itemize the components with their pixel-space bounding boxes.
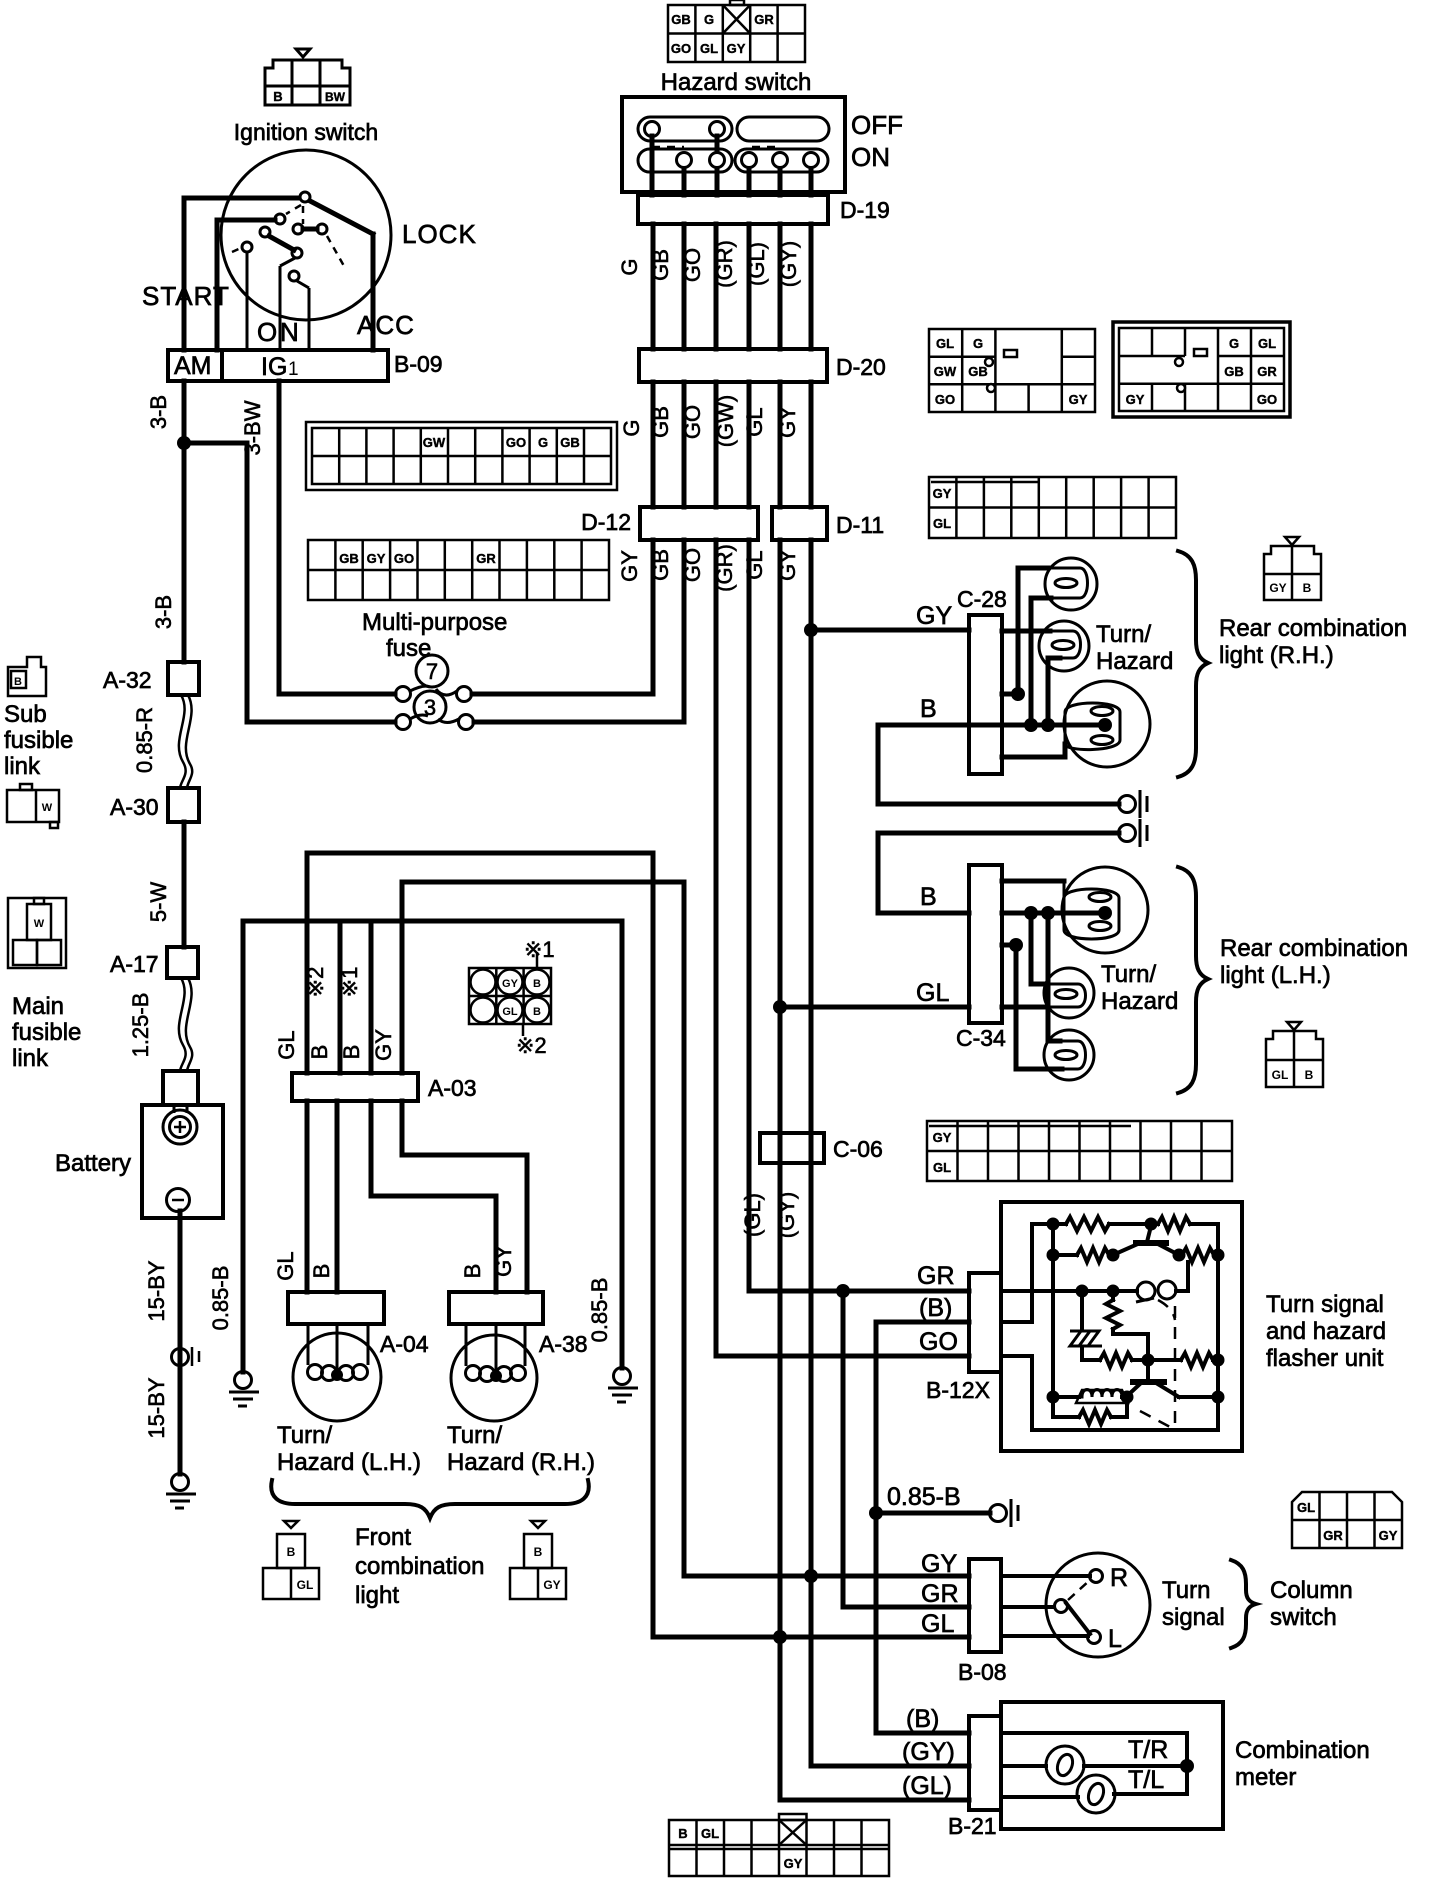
svg-text:GO: GO [506,435,526,450]
svg-text:Multi-purpose: Multi-purpose [362,609,507,636]
wire B front ground bus [243,919,622,924]
wire GY to C-28 [811,628,969,633]
front LH light connector icon [263,1521,319,1599]
battery terminal connector [163,1071,198,1105]
main fusible link icon [8,898,66,968]
wire 0.85-B to body ground [876,1511,990,1516]
svg-text:B: B [307,1045,332,1060]
wire B rear RH (ground to C-28) [878,725,1119,804]
flasher internal circuit [1001,1217,1218,1430]
resistor R6 vertical [1111,1291,1115,1300]
resistor R8 bottom [1053,1415,1079,1419]
svg-text:IG: IG [261,353,287,381]
svg-text:light (R.H.): light (R.H.) [1219,642,1334,669]
svg-text:switch: switch [1270,1604,1337,1631]
svg-text:GY: GY [775,406,800,438]
svg-text:A-32: A-32 [103,667,152,693]
svg-text:G: G [704,12,714,27]
svg-text:D-20: D-20 [836,354,886,380]
svg-text:(GL): (GL) [744,242,769,286]
svg-text:B-12X: B-12X [926,1377,990,1403]
svg-text:W: W [42,802,53,814]
svg-text:G: G [1229,336,1239,351]
svg-text:1: 1 [288,359,299,380]
svg-text:fusible: fusible [4,727,73,754]
svg-text:A-30: A-30 [110,794,159,820]
node: 3-B junction [177,436,191,450]
svg-text:※2: ※2 [303,967,328,998]
indicator bulb T/L [1077,1775,1115,1813]
svg-text:A-03: A-03 [428,1075,477,1101]
rear LH brace [1178,867,1208,1093]
wire 15-BY from battery negative [178,1211,183,1474]
svg-text:Rear combination: Rear combination [1220,935,1408,962]
wire GL (D-11 down to combination meter, through C-06) [780,540,969,1800]
svg-text:Main: Main [12,993,64,1020]
connector A-17 [167,947,198,978]
rear RH connector icon GY B [1264,537,1321,600]
svg-text:GL: GL [921,1610,954,1638]
relay contacts [1137,1282,1155,1300]
svg-text:GY: GY [1126,392,1145,407]
svg-text:T/R: T/R [1128,1736,1168,1764]
svg-text:B: B [920,695,937,723]
svg-text:D-12: D-12 [581,509,631,535]
svg-text:flasher unit: flasher unit [1266,1345,1384,1372]
flasher junction dots [1047,1218,1060,1231]
right connector face A (D-20 mate) [929,329,1095,412]
wire GO internal to bottom rail [1001,1356,1218,1430]
svg-text:A-04: A-04 [380,1331,429,1357]
svg-text:GB: GB [560,435,580,450]
connector C-28 [969,615,1002,774]
svg-text:B: B [273,89,282,104]
svg-text:GY: GY [933,1130,952,1145]
svg-text:ACC: ACC [357,310,415,340]
svg-text:(B): (B) [906,1705,939,1733]
ground (rear RH body ground) [1119,796,1136,813]
multi-purpose fuse box lower [308,540,609,600]
svg-text:GR: GR [476,551,496,566]
svg-text:※1: ※1 [337,967,362,998]
fusible link icon W [7,784,59,828]
right rail [1216,1224,1220,1430]
svg-text:15-BY: 15-BY [144,1377,169,1438]
connector face E (B-08 mate, corner-cut) [1292,1492,1402,1548]
svg-text:GL: GL [274,1030,299,1059]
svg-text:signal: signal [1162,1604,1225,1631]
svg-text:C-34: C-34 [956,1025,1006,1051]
svg-text:0.85-B: 0.85-B [208,1266,233,1331]
svg-text:GO: GO [680,248,705,282]
svg-text:Turn/: Turn/ [1096,621,1151,648]
svg-text:C-28: C-28 [957,586,1007,612]
svg-text:light: light [355,1582,399,1609]
bulb turn/hazard RH rear top [1045,558,1097,610]
node 0.85-B ground branch [869,1506,883,1520]
svg-text:B: B [460,1264,485,1279]
svg-text:LOCK: LOCK [402,219,477,249]
resistor R5 low rail [1100,1353,1132,1367]
relay contact feed GR [1001,1289,1137,1293]
svg-text:B: B [920,883,937,911]
svg-text:GL: GL [933,1160,951,1175]
svg-text:N: N [280,317,299,347]
C-34 lamp wiring [1002,881,1105,1069]
svg-text:GO: GO [680,405,705,439]
svg-text:GL: GL [936,336,954,351]
node GL column [773,1630,787,1644]
svg-text:(GL): (GL) [902,1772,952,1800]
svg-text:0.85-B: 0.85-B [587,1278,612,1343]
svg-text:link: link [12,1045,49,1072]
wire 5-W [182,822,187,947]
svg-text:(GY): (GY) [774,1192,799,1238]
rear LH connector icon GL B [1266,1022,1323,1087]
svg-text:GB: GB [339,551,359,566]
svg-text:GY: GY [933,486,952,501]
svg-text:Turn signal: Turn signal [1266,1291,1384,1318]
hazard switch connector face grid [668,0,805,62]
svg-text:7: 7 [426,659,438,684]
inline body ground connector on 15-BY [172,1349,189,1366]
svg-text:GL: GL [1297,1500,1315,1515]
connector B-21 [969,1716,1001,1810]
svg-text:B: B [309,1264,334,1279]
svg-text:※1: ※1 [524,937,555,962]
svg-text:G: G [619,419,644,436]
wire GY (D-12 to fuse 7) [472,540,653,694]
svg-text:GY: GY [371,1029,396,1061]
svg-text:1.25-B: 1.25-B [128,993,153,1058]
bulb stop/turn LH rear big [1062,867,1148,953]
svg-text:GR: GR [1257,364,1277,379]
svg-text:B: B [678,1826,687,1841]
wire B internal riser [1001,1224,1066,1322]
connector A-04 [288,1292,384,1324]
svg-text:GL: GL [742,407,767,436]
connector B-09 face (ignition switch connector) [265,49,350,105]
connector C-34 [969,865,1002,1023]
svg-text:GR: GR [921,1580,959,1608]
svg-text:GR: GR [754,12,774,27]
right connector face D (C-06 mate) [927,1121,1232,1181]
svg-text:※2: ※2 [516,1033,547,1058]
C-28 lamp wiring [1002,568,1105,757]
resistor R1 top rail [1066,1217,1109,1231]
connector B-09 [168,350,388,381]
svg-text:(GW): (GW) [713,395,738,448]
svg-text:GW: GW [934,364,957,379]
svg-text:Turn/: Turn/ [1101,961,1156,988]
bulb turn/hazard LH rear bottom [1044,1030,1094,1080]
turn signal and hazard flasher unit box [1001,1202,1242,1451]
svg-text:Rear combination: Rear combination [1219,615,1407,642]
svg-text:G: G [617,258,642,275]
transistor Q1 [1136,1240,1166,1246]
wire 0.85-B right ground drop [620,921,625,1368]
svg-text:Ignition switch: Ignition switch [234,119,378,145]
meter internal wiring [1001,1733,1187,1797]
wire GO (D-12 to flasher B-12X) [716,540,969,1356]
connector A-32 [168,662,199,695]
svg-text:15-BY: 15-BY [144,1260,169,1321]
svg-text:GB: GB [671,12,691,27]
svg-text:GL: GL [742,550,767,579]
svg-text:GY: GY [367,551,386,566]
svg-text:GY: GY [502,978,519,990]
ignition switch contacts and arms [184,198,373,350]
wire B (A-03 to A-04) [335,1101,340,1292]
svg-text:B: B [287,1545,296,1559]
svg-text:Hazard (R.H.): Hazard (R.H.) [447,1449,595,1476]
wire B no.1 [369,921,374,1073]
svg-text:GB: GB [968,364,988,379]
svg-text:GO: GO [1257,392,1277,407]
svg-text:B: B [534,1545,543,1559]
wire B (A-03 to A-38) [371,1101,496,1292]
svg-text:GY: GY [784,1856,803,1871]
ground (battery 15-BY) [172,1474,189,1491]
svg-text:GL: GL [916,979,949,1007]
resistor R2 top rail [1158,1217,1190,1231]
svg-text:A-17: A-17 [110,951,159,977]
svg-text:GR: GR [1323,1528,1343,1543]
svg-text:B-08: B-08 [958,1659,1007,1685]
svg-text:G: G [973,336,983,351]
svg-text:Hazard: Hazard [1096,648,1173,675]
connector C-06 [760,1133,824,1163]
zener element branch [1080,1291,1084,1328]
svg-text:5-W: 5-W [146,882,171,923]
svg-text:C-06: C-06 [833,1136,883,1162]
svg-text:GY: GY [921,1550,957,1578]
flasher dashed lines [1140,1300,1175,1430]
svg-text:B-09: B-09 [394,351,443,377]
svg-text:GL: GL [297,1578,314,1592]
right connector face B (D-19 mate) [1113,322,1290,417]
svg-text:Hazard (L.H.): Hazard (L.H.) [277,1449,421,1476]
svg-text:3-B: 3-B [151,595,176,629]
wire GL (A-03 to A-04) [305,1101,310,1292]
svg-text:BW: BW [325,90,346,104]
svg-text:combination: combination [355,1553,484,1580]
relay coil L1 [1053,1395,1079,1399]
svg-text:GY: GY [916,602,952,630]
svg-text:GB: GB [1224,364,1244,379]
sub fusible link icon [8,657,46,696]
svg-text:Turn/: Turn/ [447,1422,502,1449]
wires D-19 to D-20 : G GB GO (GR) (GL) (GY) [653,224,811,349]
svg-text:Sub: Sub [4,701,47,728]
svg-text:START: START [142,281,230,311]
svg-text:GL: GL [700,41,718,56]
svg-text:GY: GY [727,41,746,56]
svg-text:A-38: A-38 [539,1331,588,1357]
svg-text:(GY): (GY) [776,241,801,287]
svg-text:Battery: Battery [55,1150,131,1177]
svg-text:GY: GY [617,550,642,582]
wire 0.85-B left ground drop [241,921,246,1372]
svg-text:GW: GW [423,435,446,450]
svg-text:GL: GL [1272,1068,1289,1082]
connector D-19 [638,195,828,224]
flexible lead 1.25-B [179,978,186,1071]
bulb turn/hazard RH rear mid [1039,621,1089,671]
svg-text:B: B [14,676,22,688]
svg-text:GL: GL [502,1006,518,1018]
svg-text:GL: GL [1258,336,1276,351]
svg-text:fusible: fusible [12,1019,81,1046]
svg-text:W: W [34,918,45,930]
svg-text:GY: GY [543,1578,560,1592]
wire (B) flasher to meter [876,1322,969,1733]
rear RH brace [1178,551,1208,777]
connector B-12X [969,1273,1001,1372]
svg-text:(GR): (GR) [712,240,737,288]
wire GR branch to column switch [843,1291,969,1607]
svg-text:D-19: D-19 [840,197,890,223]
svg-text:link: link [4,753,41,780]
svg-text:GO: GO [919,1328,958,1356]
svg-text:0.85-B: 0.85-B [887,1483,961,1511]
ground (front left 0.85-B) [235,1372,252,1389]
svg-text:GO: GO [935,392,955,407]
wire GY front (A-03 to column switch GY) [402,882,969,1576]
wire 3-B branch to fuse 3 [184,443,395,722]
bulb stop/turn RH rear big [1064,681,1150,767]
svg-text:OFF: OFF [851,110,903,140]
front RH light connector icon [510,1521,566,1599]
svg-text:GR: GR [917,1262,955,1290]
svg-text:GO: GO [671,41,691,56]
resistor R3 second rail [1053,1253,1077,1257]
svg-text:Turn: Turn [1162,1577,1210,1604]
wire GB (D-12 to fuse 3) [474,540,684,722]
node GY column [804,1569,818,1583]
svg-text:Turn/: Turn/ [277,1422,332,1449]
svg-text:3-BW: 3-BW [240,400,265,455]
hazard switch OFF row contacts [638,117,829,141]
svg-text:R: R [1110,1564,1128,1592]
svg-text:L: L [1108,1625,1122,1653]
svg-text:O: O [257,317,277,347]
combination meter box [1001,1702,1223,1829]
transistor Q1 base link [1113,1243,1140,1255]
transistor Q2 [1146,1360,1150,1381]
wire GY (D-11 down to combination meter, through C-06) [811,540,969,1766]
svg-text:GB: GB [648,406,673,438]
connector A-03 [292,1073,418,1101]
battery BT1 [142,1105,223,1218]
svg-text:B: B [533,978,541,990]
svg-text:ON: ON [851,142,890,172]
svg-text:GY: GY [1269,581,1286,595]
wire B no.2 [338,921,343,1073]
svg-text:Column: Column [1270,1577,1353,1604]
svg-text:B: B [1305,1068,1314,1082]
connector D-20 [639,349,827,382]
lamp turn/hazard LH front [293,1333,381,1421]
svg-text:GY: GY [1379,1528,1398,1543]
bottom connector face (B-21 mate) [669,1814,889,1876]
svg-text:Front: Front [355,1524,411,1551]
wire GL front (A-03 to column switch GL) [307,853,969,1637]
wire 3-B from B-09 AM [182,381,187,662]
connector D-12 [640,507,758,540]
wire B rear LH (ground to C-34) [878,833,1119,913]
svg-text:(B): (B) [919,1294,952,1322]
svg-text:GL: GL [701,1826,719,1841]
connector A-30 [168,788,199,822]
resistor R4 second rail right [1179,1253,1182,1257]
flexible lead 0.85-R [179,695,186,788]
ground (rear LH body ground) [1119,825,1136,842]
contact right side riser [1176,1262,1188,1291]
svg-text:D-11: D-11 [836,512,884,538]
multi-purpose fuse box upper [306,422,617,490]
column switch brace [1231,1560,1256,1648]
svg-text:GY: GY [1069,392,1088,407]
svg-text:meter: meter [1235,1764,1296,1791]
fuse 7 [416,655,448,687]
svg-text:Combination: Combination [1235,1737,1370,1764]
node GL rear branch [773,1000,787,1014]
resistor R7 low rail right [1181,1353,1213,1367]
front combination light brace [271,1480,589,1518]
svg-text:AM: AM [174,352,212,380]
svg-text:0.85-R: 0.85-R [132,707,157,773]
svg-text:B: B [339,1045,364,1060]
svg-text:B-21: B-21 [948,1813,997,1839]
zener/thermal symbol [1070,1331,1102,1346]
svg-text:and hazard: and hazard [1266,1318,1386,1345]
svg-text:B: B [533,1006,541,1018]
indicator bulb T/R [1046,1746,1084,1784]
svg-text:GL: GL [273,1251,298,1280]
column switch turn signal SW [1046,1553,1150,1657]
connector A-38 [449,1292,543,1324]
svg-text:Hazard: Hazard [1101,988,1178,1015]
hazard switch S1 box [622,97,845,192]
svg-text:(GY): (GY) [902,1738,955,1766]
svg-text:GB: GB [648,249,673,281]
svg-text:GO: GO [394,551,414,566]
lamp turn/hazard RH front [451,1335,537,1421]
fuse 3 [414,691,446,723]
svg-text:3-B: 3-B [146,395,171,429]
wires D-20 to D-12/D-11 : G GB GO (GW) GL GY [653,382,811,507]
svg-text:GY: GY [491,1245,516,1277]
connector B-08 [969,1559,1001,1652]
wire GY (A-03 to A-38) [402,1101,527,1292]
ground (flasher 0.85-B body ground) [990,1505,1007,1522]
left rail [1051,1224,1055,1417]
right connector face C (D-12/D-11 mate) [929,477,1176,538]
svg-text:(GL): (GL) [740,1193,765,1237]
hazard switch ON row contacts [638,149,828,172]
connector D-11 [772,507,827,540]
wire GL to C-34 [780,1005,969,1010]
bulb turn/hazard LH rear mid [1044,968,1094,1018]
svg-text:T/L: T/L [1128,1766,1164,1794]
wire (GR) (D-11 to flasher B-12X) [749,540,969,1291]
ignition switch U1 body [221,150,391,320]
bulb terminal connector face (GY B / GL B) [469,952,551,1036]
svg-text:GL: GL [933,516,951,531]
svg-text:G: G [538,435,548,450]
svg-text:light (L.H.): light (L.H.) [1220,962,1331,989]
